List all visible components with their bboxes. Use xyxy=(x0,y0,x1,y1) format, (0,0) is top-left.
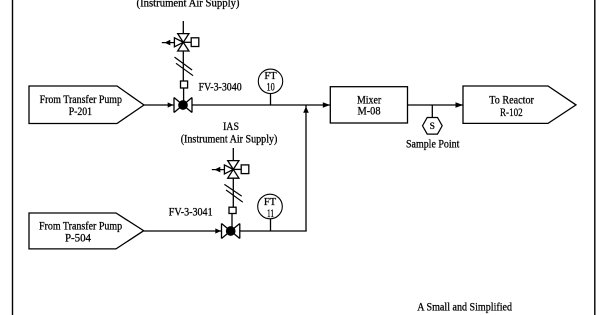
wire: upper main line valve to mixer xyxy=(192,104,330,106)
flow arrow into reactor xyxy=(456,102,464,108)
svg-text:P-504: P-504 xyxy=(65,231,91,245)
svg-text:Sample Point: Sample Point xyxy=(406,136,460,150)
wire: lower IAS supply line xyxy=(232,148,234,161)
wire: lower line valve to riser corner xyxy=(240,230,307,232)
svg-text:10: 10 xyxy=(267,80,275,94)
pneumatic slashes (upper) xyxy=(175,57,193,70)
mixer M-08 xyxy=(330,87,407,123)
wire: actuator stem (lower) xyxy=(231,214,233,230)
right border line xyxy=(594,0,596,315)
control valve FV-3-3041 (ball valve) xyxy=(222,224,240,239)
flow arrow (upper feed) xyxy=(168,102,174,107)
instrument FT-10 xyxy=(258,69,282,105)
wire: upper feed line from P-201 xyxy=(144,104,174,106)
wire: upper IAS supply line xyxy=(182,21,184,34)
vent arrow (upper solenoid) xyxy=(162,40,175,46)
instrument FT-11 xyxy=(258,194,283,231)
sample point hexagon S xyxy=(423,118,443,135)
svg-text:R-102: R-102 xyxy=(500,105,523,119)
flow arrow up at junction xyxy=(303,107,309,113)
wire: pneumatic signal line (lower) xyxy=(232,178,234,207)
svg-text:(Instrument Air Supply): (Instrument Air Supply) xyxy=(181,131,278,145)
off-page connector: From Transfer Pump P-504 xyxy=(29,213,144,249)
svg-text:(Instrument Air Supply): (Instrument Air Supply) xyxy=(137,0,240,10)
off-page connector: From Transfer Pump P-201 xyxy=(29,86,144,124)
pneumatic slashes (lower) xyxy=(224,184,241,196)
svg-text:FV-3-3040: FV-3-3040 xyxy=(199,79,242,93)
off-page connector: To Reactor R-102 xyxy=(463,86,576,123)
flow arrow (lower feed) xyxy=(215,228,221,233)
svg-text:11: 11 xyxy=(267,206,274,220)
positioner square (upper) xyxy=(181,81,188,88)
vent arrow (lower solenoid) xyxy=(212,167,225,173)
solenoid valve SV (lower, 3-way) xyxy=(224,161,248,179)
svg-text:FV-3-3041: FV-3-3041 xyxy=(169,205,213,219)
svg-text:S: S xyxy=(430,122,435,132)
wire: sample point stem xyxy=(431,105,433,118)
svg-text:A Small and Simplified: A Small and Simplified xyxy=(417,300,512,314)
svg-text:P-201: P-201 xyxy=(69,104,92,118)
solenoid valve SV (upper, 3-way) xyxy=(174,34,198,51)
wire: riser from lower line joining upper line xyxy=(305,105,307,231)
flow arrow into mixer xyxy=(323,102,330,108)
wire: pneumatic signal line (upper) xyxy=(182,51,184,81)
wire: lower feed line from P-504 xyxy=(144,230,222,232)
wire: mixer outlet to reactor xyxy=(408,104,464,106)
control valve FV-3-3040 (ball valve) xyxy=(174,98,192,113)
wire: actuator stem (upper) xyxy=(183,88,185,103)
svg-text:M-08: M-08 xyxy=(358,103,381,117)
positioner square (lower) xyxy=(229,207,236,213)
left border line xyxy=(12,0,14,315)
